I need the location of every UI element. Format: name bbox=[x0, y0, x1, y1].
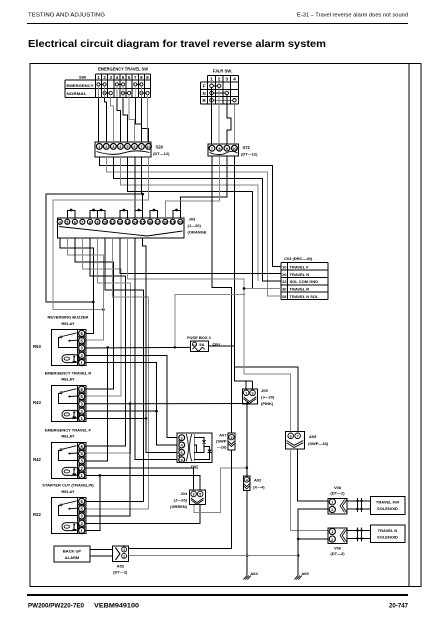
svg-text:23: 23 bbox=[282, 279, 287, 284]
svg-text:SOLENOID: SOLENOID bbox=[377, 506, 398, 511]
svg-text:10: 10 bbox=[146, 144, 150, 149]
svg-text:EMERGENCY: EMERGENCY bbox=[67, 84, 95, 88]
svg-text:F.N.R SW.: F.N.R SW. bbox=[213, 68, 232, 73]
svg-text:R43: R43 bbox=[33, 400, 41, 405]
svg-text:10: 10 bbox=[282, 264, 287, 269]
svg-text:ALARM: ALARM bbox=[65, 555, 80, 560]
svg-text:S96: S96 bbox=[79, 75, 87, 80]
svg-text:(DT—12): (DT—12) bbox=[153, 151, 170, 156]
svg-text:BACK UP: BACK UP bbox=[63, 549, 82, 554]
svg-text:EMERGENCY TRAVEL F: EMERGENCY TRAVEL F bbox=[45, 427, 92, 432]
svg-text:TRAVEL N: TRAVEL N bbox=[290, 272, 310, 277]
svg-text:20: 20 bbox=[178, 221, 182, 225]
svg-text:20-747: 20-747 bbox=[389, 603, 409, 610]
svg-text:FB2: FB2 bbox=[213, 343, 221, 348]
svg-text:6: 6 bbox=[181, 451, 183, 455]
svg-text:30: 30 bbox=[282, 287, 287, 292]
svg-text:VEBM949100: VEBM949100 bbox=[94, 603, 140, 610]
svg-text:3: 3 bbox=[252, 392, 254, 396]
svg-text:FUSE BOX 2: FUSE BOX 2 bbox=[187, 335, 212, 340]
svg-text:(SWP—16): (SWP—16) bbox=[308, 441, 329, 446]
svg-text:TESTING AND ADJUSTING: TESTING AND ADJUSTING bbox=[28, 13, 105, 19]
svg-text:(DT—2): (DT—2) bbox=[330, 491, 345, 496]
svg-text:4: 4 bbox=[233, 77, 236, 82]
svg-text:(GREEN): (GREEN) bbox=[170, 504, 188, 509]
svg-text:4: 4 bbox=[59, 221, 61, 225]
svg-text:8: 8 bbox=[89, 221, 91, 225]
svg-text:TRAVEL N: TRAVEL N bbox=[378, 528, 398, 533]
svg-text:A02: A02 bbox=[254, 478, 262, 483]
svg-text:C03 (DRC—40): C03 (DRC—40) bbox=[284, 256, 313, 261]
svg-text:6: 6 bbox=[290, 435, 292, 439]
svg-text:V08: V08 bbox=[334, 485, 342, 490]
svg-text:14: 14 bbox=[133, 221, 137, 225]
svg-text:(J—20): (J—20) bbox=[174, 498, 188, 503]
svg-text:3: 3 bbox=[230, 436, 232, 440]
svg-text:J05: J05 bbox=[261, 388, 268, 393]
svg-text:7: 7 bbox=[140, 144, 142, 149]
svg-text:Electrical circuit diagram for: Electrical circuit diagram for travel re… bbox=[28, 39, 326, 50]
svg-text:3: 3 bbox=[226, 77, 229, 82]
svg-text:(J—20): (J—20) bbox=[188, 223, 202, 228]
svg-text:6: 6 bbox=[74, 221, 76, 225]
svg-text:5A: 5A bbox=[199, 342, 204, 347]
svg-text:(J—20): (J—20) bbox=[261, 395, 275, 400]
svg-text:V06: V06 bbox=[334, 545, 342, 550]
svg-text:A65: A65 bbox=[301, 571, 309, 576]
svg-text:11: 11 bbox=[111, 221, 115, 225]
svg-text:RELAY: RELAY bbox=[61, 377, 75, 382]
svg-text:16: 16 bbox=[148, 221, 152, 225]
svg-text:A64: A64 bbox=[250, 571, 258, 576]
svg-text:N: N bbox=[203, 91, 206, 96]
svg-text:7: 7 bbox=[297, 435, 299, 439]
svg-text:8: 8 bbox=[181, 458, 183, 462]
svg-text:3: 3 bbox=[193, 493, 195, 497]
svg-text:TRAVEL R: TRAVEL R bbox=[290, 287, 310, 292]
svg-text:15: 15 bbox=[141, 221, 145, 225]
svg-text:5: 5 bbox=[66, 221, 68, 225]
svg-text:20: 20 bbox=[282, 272, 287, 277]
svg-text:S29: S29 bbox=[156, 145, 164, 150]
svg-text:F: F bbox=[203, 84, 206, 89]
svg-text:13: 13 bbox=[126, 221, 130, 225]
svg-text:10: 10 bbox=[232, 146, 236, 151]
svg-text:08: 08 bbox=[282, 294, 287, 299]
svg-text:A07: A07 bbox=[219, 433, 227, 438]
svg-text:(ORANGE: (ORANGE bbox=[188, 230, 207, 235]
svg-text:(DT—2): (DT—2) bbox=[113, 570, 128, 575]
svg-text:7: 7 bbox=[81, 221, 83, 225]
svg-text:R22: R22 bbox=[33, 512, 41, 517]
svg-text:10: 10 bbox=[103, 221, 107, 225]
svg-text:EMERGENCY TRAVEL R: EMERGENCY TRAVEL R bbox=[45, 370, 92, 375]
svg-text:REVERSING BUZZER: REVERSING BUZZER bbox=[48, 315, 89, 320]
svg-text:17: 17 bbox=[156, 221, 160, 225]
svg-text:A53: A53 bbox=[117, 564, 125, 569]
svg-text:TRAVEL F/R: TRAVEL F/R bbox=[376, 500, 399, 505]
svg-text:9: 9 bbox=[96, 221, 98, 225]
svg-text:10: 10 bbox=[193, 343, 197, 347]
svg-text:TRAVEL F: TRAVEL F bbox=[290, 264, 310, 269]
svg-text:(SWP: (SWP bbox=[216, 439, 227, 444]
svg-text:5: 5 bbox=[199, 493, 201, 497]
svg-text:TRAVEL N SOL: TRAVEL N SOL bbox=[290, 294, 320, 299]
svg-text:SOLENOID: SOLENOID bbox=[377, 534, 398, 539]
svg-text:7: 7 bbox=[211, 146, 213, 151]
svg-text:2: 2 bbox=[181, 436, 183, 440]
svg-text:J03: J03 bbox=[189, 217, 196, 222]
svg-text:(PINK): (PINK) bbox=[261, 401, 274, 406]
svg-text:RELAY: RELAY bbox=[61, 489, 75, 494]
svg-text:SOL COM GND: SOL COM GND bbox=[290, 279, 319, 284]
svg-text:R42: R42 bbox=[33, 457, 41, 462]
svg-text:1: 1 bbox=[123, 548, 125, 552]
svg-text:S72: S72 bbox=[243, 145, 251, 150]
svg-text:2: 2 bbox=[218, 77, 221, 82]
svg-text:2: 2 bbox=[123, 555, 125, 559]
svg-text:18: 18 bbox=[163, 221, 167, 225]
svg-text:J04: J04 bbox=[180, 491, 187, 496]
svg-text:(DT—2): (DT—2) bbox=[330, 551, 345, 556]
svg-text:E-31 – Travel reverse alarm do: E-31 – Travel reverse alarm does not sou… bbox=[297, 13, 408, 19]
svg-text:PW200/PW220-7E0: PW200/PW220-7E0 bbox=[28, 603, 85, 610]
svg-text:RELAY: RELAY bbox=[61, 434, 75, 439]
svg-text:D02: D02 bbox=[191, 465, 199, 470]
svg-text:12: 12 bbox=[118, 221, 122, 225]
svg-text:(DT—12): (DT—12) bbox=[241, 152, 258, 157]
svg-text:R53: R53 bbox=[33, 344, 41, 349]
svg-text:NORMAL: NORMAL bbox=[67, 92, 88, 96]
svg-text:A05: A05 bbox=[309, 434, 317, 439]
svg-text:19: 19 bbox=[171, 221, 175, 225]
svg-text:STARTER CUT (TRAVEL/N): STARTER CUT (TRAVEL/N) bbox=[42, 483, 94, 488]
svg-text:1: 1 bbox=[210, 77, 213, 82]
svg-text:RELAY: RELAY bbox=[61, 321, 75, 326]
svg-text:EMERGENCY TRAVEL SW: EMERGENCY TRAVEL SW bbox=[98, 67, 148, 72]
svg-text:(X—4): (X—4) bbox=[253, 485, 265, 490]
svg-text:—16): —16) bbox=[217, 445, 227, 450]
svg-text:1: 1 bbox=[245, 392, 247, 396]
